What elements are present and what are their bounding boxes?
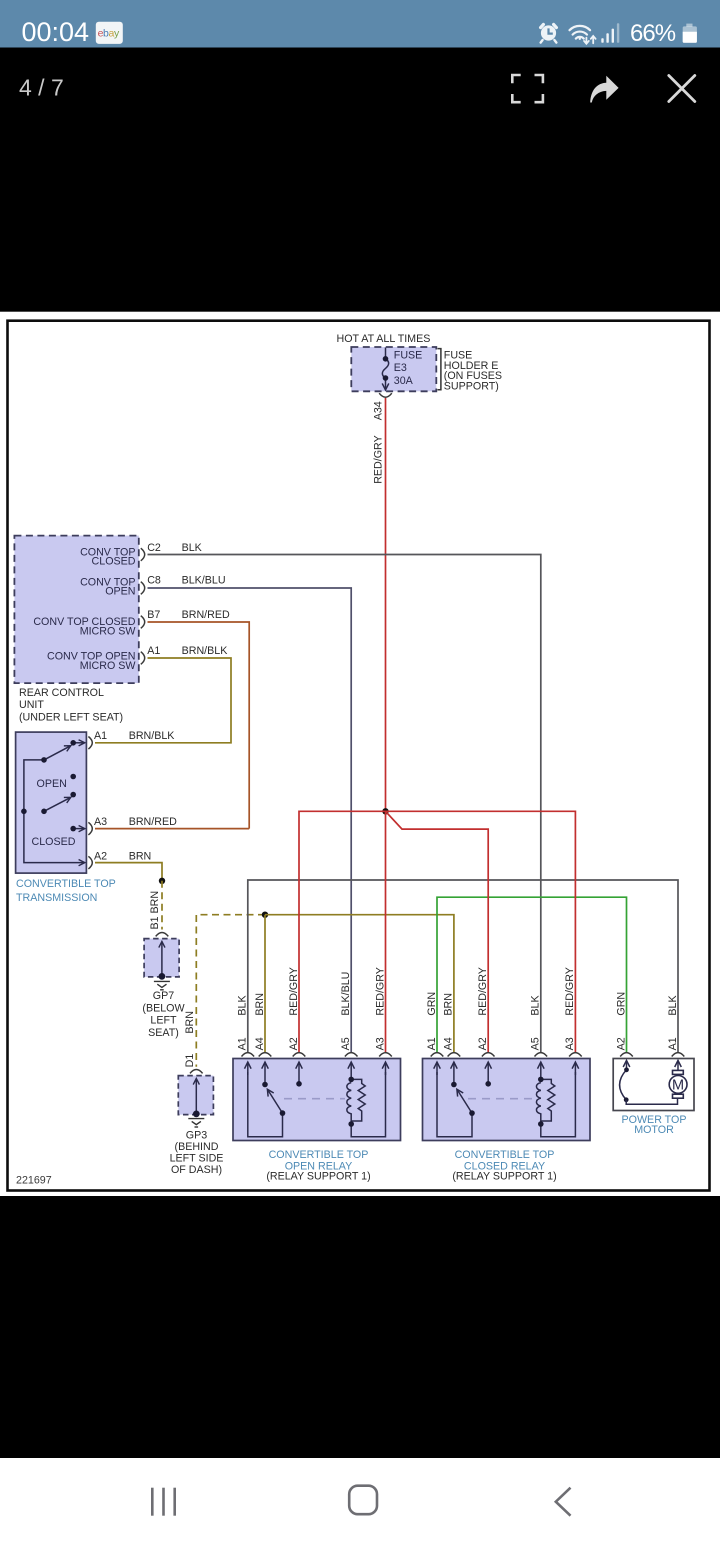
motor flexible link arc <box>620 1070 627 1100</box>
svg-text:D1: D1 <box>184 1054 196 1068</box>
motor connector feet A2 A1 <box>620 1053 684 1057</box>
svg-text:BLK: BLK <box>530 995 542 1016</box>
svg-text:OF DASH): OF DASH) <box>171 1164 222 1176</box>
svg-text:FUSE: FUSE <box>394 350 423 362</box>
svg-text:OPEN: OPEN <box>37 778 67 790</box>
svg-text:BLK/BLU: BLK/BLU <box>340 972 352 1016</box>
svg-text:(RELAY SUPPORT 1): (RELAY SUPPORT 1) <box>452 1171 556 1183</box>
GP3 internal arrow and dot <box>195 1079 197 1114</box>
svg-text:BRN: BRN <box>443 993 455 1016</box>
closed relay rotated wire color labels <box>426 967 576 1016</box>
GP7 internal arrow and dot <box>161 942 163 976</box>
svg-text:A2: A2 <box>288 1037 300 1050</box>
svg-text:GP3: GP3 <box>186 1129 207 1141</box>
wire BRN dashed D1 run to ground GP3 <box>196 915 265 1067</box>
motor rotated pin labels <box>615 1037 679 1050</box>
wire BLK C2 to closed relay A5 <box>148 555 541 1053</box>
connector D1 feet <box>190 1070 203 1074</box>
closed relay mechanical dashed link <box>468 1098 535 1100</box>
svg-text:BLK: BLK <box>182 542 203 554</box>
wire RED/GRY jog to closed relay A2 <box>386 811 489 1052</box>
svg-text:BRN/BLK: BRN/BLK <box>182 645 229 657</box>
signal strength bars <box>601 23 619 43</box>
svg-text:UNIT: UNIT <box>19 699 44 711</box>
svg-text:BLK: BLK <box>237 995 249 1016</box>
svg-text:CONVERTIBLE TOP: CONVERTIBLE TOP <box>269 1149 369 1161</box>
svg-text:A5: A5 <box>530 1037 542 1050</box>
transmission internals: open switch <box>24 743 85 812</box>
GP3 ground symbol <box>188 1119 204 1127</box>
svg-text:BRN/RED: BRN/RED <box>129 816 177 828</box>
svg-text:(BEHIND: (BEHIND <box>175 1141 219 1153</box>
svg-text:BLK/BLU: BLK/BLU <box>182 574 226 586</box>
open relay coil with parallel resistor <box>347 1072 386 1137</box>
svg-text:A3: A3 <box>374 1037 386 1050</box>
svg-text:BRN/BLK: BRN/BLK <box>129 730 176 742</box>
fullscreen icon <box>512 75 543 102</box>
open relay switch and rails <box>248 1072 283 1137</box>
svg-text:OPEN: OPEN <box>105 586 135 598</box>
svg-text:B7: B7 <box>147 609 160 621</box>
convertible top closed relay box <box>423 1059 591 1141</box>
status bar background <box>0 0 720 48</box>
ground GP3 box <box>178 1076 213 1115</box>
wire RED/GRY junction down to open relay A3 <box>385 811 387 1052</box>
svg-text:LEFT: LEFT <box>150 1015 177 1027</box>
wire BRN junction to closed relay A4 <box>265 915 454 1052</box>
svg-text:MICRO SW: MICRO SW <box>80 660 137 672</box>
caption CONVERTIBLE TOP CLOSED RELAY (RELAY SUPPORT 1) <box>452 1149 556 1183</box>
svg-text:CLOSED: CLOSED <box>92 555 136 567</box>
svg-text:HOT AT ALL TIMES: HOT AT ALL TIMES <box>337 333 431 345</box>
svg-text:A4: A4 <box>443 1037 455 1050</box>
svg-text:(RELAY SUPPORT 1): (RELAY SUPPORT 1) <box>266 1171 370 1183</box>
svg-text:MOTOR: MOTOR <box>634 1124 674 1136</box>
svg-text:A1: A1 <box>426 1037 438 1050</box>
open relay mechanical dashed link <box>284 1098 345 1100</box>
bottom nav bar background <box>0 1458 720 1544</box>
close X icon <box>669 76 695 102</box>
alarm clock icon <box>541 24 557 42</box>
closed relay rotated pin labels <box>426 1037 576 1050</box>
svg-text:RED/GRY: RED/GRY <box>374 967 386 1016</box>
wire BLK/BLU C8 to open relay A5 <box>148 588 352 1052</box>
ebay app icon <box>96 22 123 44</box>
svg-text:CONVERTIBLE TOP: CONVERTIBLE TOP <box>455 1149 555 1161</box>
transmission pin A3 feet <box>88 822 92 835</box>
convertible top transmission box <box>16 732 87 873</box>
nav home icon <box>349 1486 377 1515</box>
pin C2 connector feet <box>141 548 145 561</box>
svg-text:CONVERTIBLE TOP: CONVERTIBLE TOP <box>16 878 116 890</box>
svg-text:A2: A2 <box>94 850 107 862</box>
svg-text:221697: 221697 <box>16 1174 52 1186</box>
svg-text:BRN: BRN <box>129 850 152 862</box>
open relay rotated pin labels <box>237 1037 387 1050</box>
svg-text:CLOSED: CLOSED <box>32 836 76 848</box>
svg-text:A1: A1 <box>147 645 160 657</box>
wire RED/GRY junction to open relay A2 and closed relay A3 <box>299 811 575 1052</box>
fuse E3 30A symbol <box>382 348 388 390</box>
pin C8 connector feet <box>141 582 145 595</box>
ground GP7 box <box>144 939 179 977</box>
share arrow icon <box>590 76 618 103</box>
wire BLK open relay A1 to motor A1 <box>248 880 678 1052</box>
closed relay connector feet A1 A4 A2 A5 A3 <box>431 1053 582 1057</box>
motor pin entry arrows <box>627 1061 679 1071</box>
svg-text:A3: A3 <box>564 1037 576 1050</box>
svg-text:GRN: GRN <box>615 992 627 1016</box>
svg-text:M: M <box>672 1078 684 1094</box>
svg-text:MICRO SW: MICRO SW <box>80 626 137 638</box>
svg-text:C8: C8 <box>147 574 161 586</box>
fuse value labels <box>394 350 423 388</box>
svg-text:RED/GRY: RED/GRY <box>477 967 489 1016</box>
closed relay pin entry arrows <box>437 1062 575 1084</box>
junction node on BRN wire <box>159 878 165 884</box>
svg-text:4 / 7: 4 / 7 <box>19 75 64 101</box>
svg-text:A1: A1 <box>667 1037 679 1050</box>
svg-text:REAR CONTROL: REAR CONTROL <box>19 687 104 699</box>
label FUSE HOLDER E (ON FUSES SUPPORT) <box>444 349 502 392</box>
svg-text:SUPPORT): SUPPORT) <box>444 381 499 393</box>
convertible top open relay box <box>233 1059 401 1141</box>
wire BRN/RED transmission A3 to B7 riser <box>95 828 249 830</box>
svg-text:RED/GRY: RED/GRY <box>372 435 384 484</box>
caption GP7 (BELOW LEFT SEAT) <box>142 990 185 1039</box>
svg-text:BRN: BRN <box>254 993 266 1016</box>
junction node BRN distribution <box>262 912 268 918</box>
bracket for fuse holder note <box>438 349 441 390</box>
caption REAR CONTROL UNIT (UNDER LEFT SEAT) <box>19 687 123 723</box>
wire BRN junction to open relay A4 <box>264 915 266 1052</box>
transmission pin A2 feet <box>88 856 92 869</box>
caption CONVERTIBLE TOP OPEN RELAY (RELAY SUPPORT 1) <box>266 1149 370 1183</box>
wire RED/GRY from fuse down to junction <box>385 398 387 811</box>
junction node RED/GRY hub <box>382 808 388 814</box>
wire BRN/BLK control unit A1 to transmission A1 <box>95 658 231 743</box>
nav back icon <box>556 1488 571 1516</box>
svg-text:TRANSMISSION: TRANSMISSION <box>16 892 97 904</box>
connector A34 feet <box>379 393 392 397</box>
svg-text:66%: 66% <box>630 20 676 47</box>
svg-text:RED/GRY: RED/GRY <box>288 967 300 1016</box>
svg-text:A2: A2 <box>615 1037 627 1050</box>
svg-text:LEFT SIDE: LEFT SIDE <box>170 1152 224 1164</box>
rear control unit internal pin names <box>33 546 136 672</box>
svg-text:BLK: BLK <box>667 995 679 1016</box>
wire B1 BRN dashed to ground GP7 <box>161 881 163 930</box>
svg-text:A34: A34 <box>372 401 384 420</box>
closed relay coil with parallel resistor <box>536 1072 575 1137</box>
svg-text:30A: 30A <box>394 375 414 387</box>
svg-text:A5: A5 <box>340 1037 352 1050</box>
svg-text:A3: A3 <box>94 816 107 828</box>
caption GP3 (BEHIND LEFT SIDE OF DASH) <box>170 1129 224 1176</box>
svg-text:RED/GRY: RED/GRY <box>564 967 576 1016</box>
wire GRN closed relay A1 to motor A2 <box>437 897 627 1052</box>
white scan area <box>0 312 720 1196</box>
open relay rotated wire color labels <box>237 967 387 1016</box>
battery icon <box>683 24 697 43</box>
diagram border frame <box>8 321 710 1191</box>
transmission pin A1 feet <box>88 737 92 750</box>
svg-text:A1: A1 <box>94 730 107 742</box>
rear control unit box (dashed) <box>14 536 138 684</box>
wire BRN transmission A2 <box>95 863 162 881</box>
svg-text:A2: A2 <box>477 1037 489 1050</box>
svg-text:GRN: GRN <box>426 992 438 1016</box>
wifi icon with up/down arrows <box>570 26 596 44</box>
svg-text:BRN: BRN <box>184 1011 196 1034</box>
svg-text:BRN/RED: BRN/RED <box>182 609 230 621</box>
svg-text:GP7: GP7 <box>153 990 174 1002</box>
fuse holder E box (dashed) <box>351 347 436 391</box>
GP7 ground symbol <box>154 981 170 989</box>
transmission internals: closed switch <box>24 797 85 862</box>
power top motor box <box>613 1059 694 1111</box>
motor M symbol <box>669 1070 687 1098</box>
pin A1 (control unit) connector feet <box>141 652 145 665</box>
motor bottom wire <box>626 1098 677 1104</box>
open relay connector feet A1 A4 A2 A5 A3 <box>242 1053 392 1057</box>
svg-text:C2: C2 <box>147 542 161 554</box>
motor rotated wire color labels <box>615 992 679 1016</box>
svg-text:00:04: 00:04 <box>22 17 90 47</box>
svg-text:ebay: ebay <box>98 28 120 40</box>
caption POWER TOP MOTOR <box>622 1114 687 1136</box>
svg-text:(BELOW: (BELOW <box>142 1002 185 1014</box>
connector B1 feet <box>156 933 169 937</box>
svg-text:(UNDER LEFT SEAT): (UNDER LEFT SEAT) <box>19 711 123 723</box>
closed relay switch and rails <box>437 1072 472 1137</box>
svg-text:B1 BRN: B1 BRN <box>149 891 161 930</box>
svg-text:E3: E3 <box>394 362 407 374</box>
wire BRN/RED B7 down to transmission A3 <box>148 622 250 829</box>
pin B7 connector feet <box>141 616 145 629</box>
nav recents icon <box>151 1488 176 1516</box>
svg-text:A1: A1 <box>237 1037 249 1050</box>
svg-text:A4: A4 <box>254 1037 266 1050</box>
svg-text:SEAT): SEAT) <box>148 1027 179 1039</box>
open relay pin entry arrows <box>248 1062 386 1084</box>
